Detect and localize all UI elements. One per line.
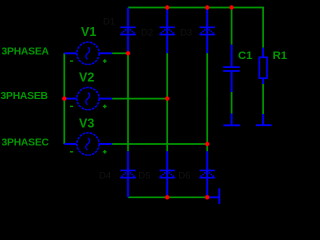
- svg-text:3PHASEA: 3PHASEA: [2, 47, 50, 58]
- diode D6: [200, 151, 215, 197]
- svg-text:D3: D3: [180, 28, 192, 39]
- svg-text:V3: V3: [79, 116, 94, 130]
- wire D3 to node C: [206, 53, 208, 99]
- svg-text:D5: D5: [138, 170, 150, 181]
- wire node C column: [206, 99, 208, 152]
- svg-text:V2: V2: [79, 71, 94, 85]
- wire neutral vertical bus: [63, 53, 65, 144]
- wire R1 bottom: [262, 84, 264, 114]
- diode D4: [120, 151, 135, 197]
- node phase B: [165, 96, 169, 100]
- svg-text:R1: R1: [273, 50, 287, 62]
- voltage source V3: [64, 133, 112, 155]
- svg-text:C1: C1: [238, 50, 252, 62]
- diode D5: [160, 151, 175, 197]
- ground bottom right: [207, 188, 219, 204]
- wire top positive rail: [128, 8, 263, 48]
- wire bottom negative rail: [128, 196, 207, 198]
- svg-text:D4: D4: [99, 170, 112, 181]
- ground under R1: [256, 114, 272, 125]
- node bottom rail D5: [165, 195, 169, 199]
- wire D2 to node B: [166, 53, 168, 99]
- svg-text:3PHASEC: 3PHASEC: [2, 138, 50, 149]
- node neutral V2: [62, 96, 66, 100]
- voltage source V1: [64, 42, 112, 64]
- resistor R1: [259, 48, 267, 84]
- diode D2: [160, 8, 175, 54]
- diode D1: [120, 8, 135, 54]
- node junction top rail D2: [165, 5, 169, 9]
- wire phase A down to D4: [127, 53, 129, 151]
- wire phase C source to node: [112, 143, 207, 145]
- svg-text:D2: D2: [141, 28, 153, 39]
- wire phase B source to node: [112, 98, 167, 100]
- node junction top rail C1: [229, 5, 233, 9]
- voltage source V2: [64, 87, 112, 109]
- node phase C: [205, 142, 209, 146]
- capacitor C1: [223, 45, 240, 93]
- node bottom rail D6 ground: [205, 195, 209, 199]
- svg-text:D1: D1: [103, 16, 115, 27]
- ground under C1: [223, 114, 240, 126]
- svg-text:D6: D6: [178, 170, 190, 181]
- node phase A: [126, 51, 130, 55]
- node junction top rail D3: [205, 5, 209, 9]
- wire node B down to D5: [166, 99, 168, 152]
- wire phase A source to node: [112, 52, 128, 54]
- wire C1 top: [231, 8, 233, 45]
- diode D3: [200, 8, 215, 54]
- wire C1 bottom: [231, 92, 233, 114]
- svg-text:V1: V1: [81, 25, 96, 39]
- svg-text:3PHASEB: 3PHASEB: [1, 91, 48, 102]
